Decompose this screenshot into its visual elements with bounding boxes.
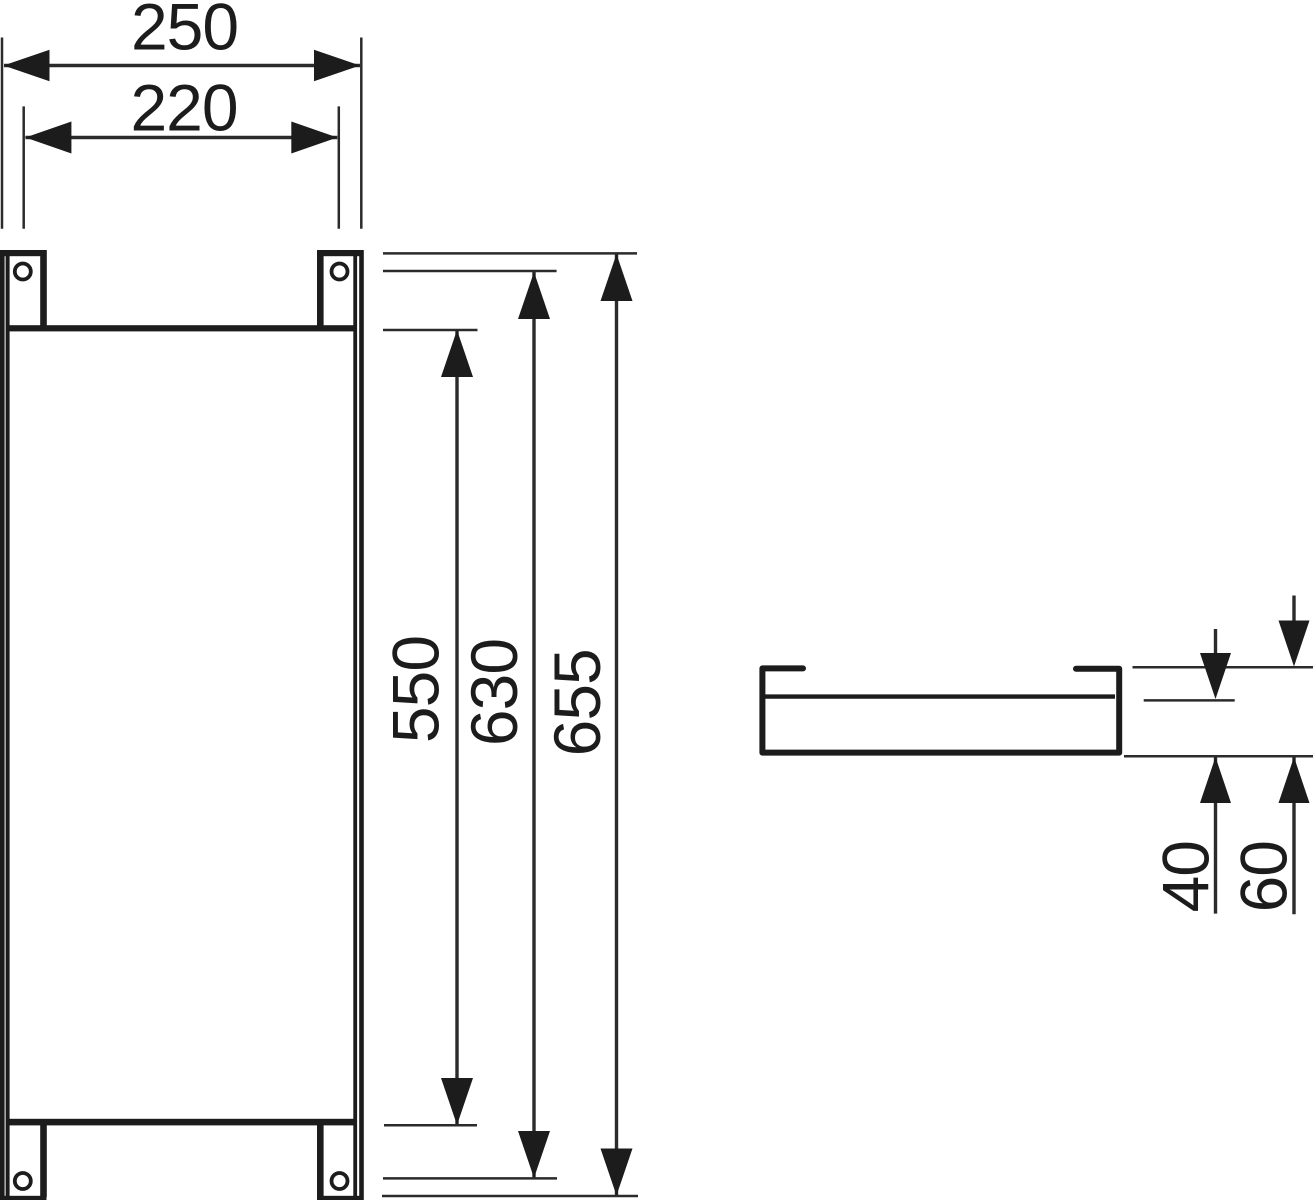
svg-text:220: 220 [130,71,237,145]
svg-text:40: 40 [1149,841,1223,912]
svg-text:655: 655 [540,649,614,756]
svg-text:630: 630 [457,639,531,746]
svg-text:60: 60 [1226,841,1300,912]
svg-text:250: 250 [131,0,238,64]
svg-text:550: 550 [378,636,452,743]
